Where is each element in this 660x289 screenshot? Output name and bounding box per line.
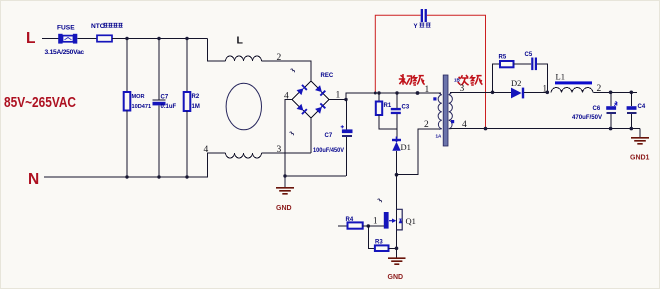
wire N bus: [44, 153, 226, 177]
wire DC minus to bulk cap: [283, 174, 346, 177]
wire choke pin3 to bridge bottom: [262, 152, 312, 154]
rectifier REC bridge outline: [292, 73, 334, 118]
label 初级 primary (red): [399, 74, 425, 85]
capacitor C6 470uF/50V: [572, 92, 617, 128]
capacitor C7 0.1uF (X-cap): [153, 39, 177, 178]
capacitor C5 snubber: [525, 52, 538, 70]
svg-text:REC: REC: [321, 73, 334, 79]
svg-text:0.1uF: 0.1uF: [161, 104, 177, 110]
svg-text:L1: L1: [556, 72, 565, 82]
ground GND1 secondary: [630, 129, 650, 162]
resistor R3 gate-source: [368, 226, 396, 251]
svg-text:GND1: GND1: [630, 155, 650, 162]
transformer pin1 lead: [414, 85, 441, 101]
svg-text:FUSE: FUSE: [57, 25, 75, 32]
junction dot red link to return: [484, 127, 488, 131]
svg-text:MOR: MOR: [132, 94, 145, 100]
transformer pin2 lead: [397, 120, 440, 175]
svg-text:D2: D2: [511, 78, 521, 88]
svg-text:1A: 1A: [436, 134, 443, 139]
fuse FUSE 3.15A/250Vac: [45, 25, 85, 57]
transformer secondary winding: [449, 93, 453, 129]
wire L bus corner down: [208, 39, 226, 62]
resistor R5 snubber: [499, 55, 514, 68]
zener D1 clamp: [392, 137, 411, 175]
ground GND source: [388, 258, 406, 281]
pin 4 choke: [204, 145, 209, 155]
junction dots DC+ rail: [377, 91, 419, 95]
svg-text:R4: R4: [346, 217, 354, 223]
transformer T1 core: [443, 75, 448, 146]
wire bridge minus to GND rail: [285, 100, 292, 177]
svg-text:GND: GND: [276, 205, 292, 212]
svg-text:1B: 1B: [454, 78, 461, 83]
svg-text:R3: R3: [375, 239, 383, 245]
red Y-cap link left leg: [374, 15, 421, 94]
wire R5 to C5: [514, 63, 532, 65]
label GND primary: [276, 205, 292, 212]
junction dots return rail: [609, 127, 633, 131]
pin 4 bridge: [284, 92, 289, 102]
svg-text:1: 1: [373, 216, 378, 226]
svg-text:2: 2: [277, 53, 282, 63]
wire L bus: [112, 38, 208, 40]
diode bridge bottom-left: [297, 104, 308, 115]
svg-text:L: L: [237, 35, 244, 47]
svg-text:C4: C4: [638, 104, 646, 110]
svg-text:C6: C6: [593, 106, 601, 112]
pin 2 choke: [277, 53, 282, 63]
svg-text:10D471: 10D471: [132, 104, 152, 110]
diode bridge bottom-right: [315, 103, 326, 114]
svg-text:1M: 1M: [192, 104, 200, 110]
ground GND primary: [276, 176, 294, 194]
tiny label 1A: [436, 134, 443, 139]
resistor R2 1M: [184, 39, 200, 178]
svg-text:R5: R5: [499, 55, 507, 61]
node N label: [28, 171, 39, 188]
pin 1 bridge: [336, 91, 341, 101]
svg-text:Q1: Q1: [406, 216, 416, 226]
thermistor NTC (NTC热敏电阻): [91, 23, 123, 42]
tiny mark near drain: [378, 199, 382, 202]
wire drain line: [396, 175, 398, 258]
svg-text:2: 2: [424, 120, 429, 130]
resistor R1 clamp: [376, 93, 397, 129]
svg-text:4: 4: [462, 120, 467, 130]
node 85V~265VAC label: [4, 95, 76, 111]
transformer pin3 lead: [450, 84, 493, 94]
varistor MOR 10D471: [124, 39, 151, 178]
node snubber tap dot: [491, 91, 495, 95]
node L1 input dot: [543, 84, 550, 95]
transformer pin4 lead / secondary return: [450, 120, 640, 130]
svg-text:NTC: NTC: [91, 23, 105, 30]
svg-text:100uF/450V: 100uF/450V: [313, 148, 344, 154]
label 次级 secondary (red): [458, 75, 483, 85]
svg-text:1: 1: [425, 85, 430, 95]
junction dots N bus: [125, 175, 188, 178]
diode bridge top-right: [315, 85, 326, 96]
svg-text:3.15A/250Vac: 3.15A/250Vac: [45, 49, 85, 56]
wire bridge bottom vertex drop: [310, 118, 312, 153]
svg-text:D1: D1: [401, 142, 411, 152]
svg-text:3: 3: [460, 84, 465, 94]
diode bridge top-left: [297, 84, 308, 95]
wire choke pin2 to bridge: [262, 61, 312, 81]
svg-text:R2: R2: [192, 94, 200, 100]
tiny label 1B: [454, 78, 461, 83]
red Y-cap link right leg: [427, 15, 486, 128]
svg-text:470uF/50V: 470uF/50V: [572, 115, 602, 121]
svg-text:C7: C7: [325, 133, 333, 139]
capacitor C7 bulk 100uF/450V: [313, 100, 353, 177]
capacitor Y (Y电容): [414, 9, 431, 30]
svg-text:L: L: [26, 30, 35, 47]
transistor Q1 MOSFET: [384, 209, 416, 230]
junction dots output rail: [609, 91, 633, 95]
capacitor C3 clamp: [391, 93, 410, 139]
tiny winding mark upper: [291, 69, 295, 72]
svg-text:4: 4: [204, 145, 209, 155]
inductor L common-mode choke bottom winding: [226, 153, 262, 158]
wire snubber left leg: [493, 64, 501, 92]
wire L input: [42, 38, 59, 40]
wire L1 to output: [594, 91, 638, 93]
svg-text:C3: C3: [402, 105, 410, 111]
svg-text:1: 1: [543, 84, 548, 94]
pin 3 choke: [277, 145, 282, 155]
svg-text:Y: Y: [414, 24, 418, 30]
inductor L1 winding: [551, 72, 602, 95]
diode D2 output: [493, 78, 548, 98]
svg-text:C5: C5: [525, 52, 533, 58]
svg-text:N: N: [28, 171, 39, 188]
inductor L common-mode choke top winding: [226, 35, 262, 62]
resistor R4 gate: [338, 217, 368, 229]
transformer primary winding: [438, 93, 442, 129]
tiny winding mark lower: [290, 132, 294, 135]
wire bridge plus to rail: [329, 93, 441, 101]
junction dots L bus: [125, 37, 188, 40]
core ellipse of choke L: [226, 83, 261, 130]
node source junction: [395, 247, 399, 251]
svg-text:C7: C7: [161, 95, 169, 101]
wire snubber right leg: [537, 64, 547, 92]
capacitor C4 output: [627, 92, 646, 128]
node drain junction: [395, 173, 399, 177]
svg-text:GND: GND: [388, 274, 404, 281]
svg-text:85V~265VAC: 85V~265VAC: [4, 95, 76, 111]
svg-text:R1: R1: [384, 103, 392, 109]
node L label: [26, 30, 35, 47]
wire fuse to NTC: [77, 38, 97, 40]
wire gate: [367, 216, 384, 228]
